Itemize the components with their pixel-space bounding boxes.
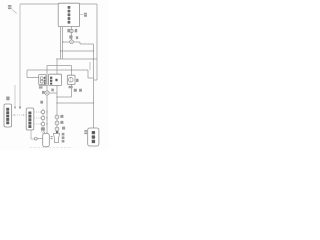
wire long line y70 (27, 69, 88, 71)
wire pipe pair left (60, 27, 62, 59)
nozzle circle 2 (55, 121, 59, 125)
text valve block (50, 77, 58, 85)
wire pump2 outlet x71.5 (71, 84, 73, 97)
label funnel right column (62, 133, 65, 143)
wire y42 branch (63, 41, 81, 43)
junction dot y51 left (60, 50, 61, 51)
wire y51 (61, 50, 94, 52)
arrowhead left link b (13, 114, 15, 116)
text controller box (68, 6, 71, 24)
label nozzle 2 (60, 121, 63, 124)
wire left signal line (14, 85, 16, 108)
junction dot y109 (56, 102, 57, 103)
wire left supply line 20 (19, 4, 21, 108)
wire drain to tank (37, 138, 43, 140)
dashed link left boxes (12, 114, 25, 116)
label nozzle 1 (60, 115, 63, 118)
text tank box (92, 131, 95, 143)
label nozzle 3 (62, 127, 65, 130)
wire bus x47 (46, 66, 48, 134)
valve circle a x43 (41, 110, 44, 113)
wire pipe pair right (62, 27, 64, 59)
nozzle circle 3 (55, 127, 59, 131)
pump2 vane (70, 77, 72, 82)
junction dot pump outlet (46, 85, 47, 86)
label sensor left (67, 29, 70, 33)
dashed control link b (34, 117, 40, 119)
funnel collector (53, 134, 59, 143)
flow sensor circle (70, 29, 73, 32)
dashed control link c (34, 123, 40, 125)
valve circle b x43 (41, 116, 44, 119)
junction dot x71 y70 (71, 69, 72, 70)
junction dot riser y51 (93, 50, 94, 51)
sensor mark (71, 30, 72, 31)
wire y97 link (57, 96, 72, 98)
junction dot riser y59 (93, 58, 94, 59)
pump2 circle (69, 77, 74, 82)
label 40 (84, 13, 87, 17)
nozzle circle 1 (55, 115, 59, 119)
wire top pipe left (20, 3, 58, 5)
text tall box (28, 112, 31, 129)
wire valve outlet y93 (49, 92, 57, 94)
wire bus x57 lower (56, 85, 58, 134)
junction dot y97 (56, 96, 57, 97)
drain pump circle (34, 137, 37, 140)
label 10 (8, 5, 12, 9)
pump box P2 (67, 75, 75, 84)
wire pump1 outlet y85.5 (39, 85, 47, 87)
wire y47 jog (80, 43, 94, 45)
pump1 circle b (40, 80, 43, 83)
wire sensor drop x71.5 (71, 27, 73, 40)
label valve v1 right (76, 36, 78, 39)
label x43 top (40, 101, 43, 104)
label pump1 below (39, 86, 43, 88)
controller box U1 (58, 3, 79, 26)
bottom faint rule (30, 147, 72, 149)
wire y109 link (57, 102, 94, 104)
label funnel left (51, 136, 53, 139)
arrowhead left link (23, 114, 25, 116)
nozzle tick 2 (56, 122, 58, 124)
label pair b (79, 89, 82, 92)
leader label 10 (12, 9, 17, 13)
wire bus y59 (57, 58, 97, 60)
control unit box left (4, 104, 12, 127)
junction dot y42 (62, 41, 63, 42)
valve V1 (70, 40, 74, 44)
nozzle tick 3 (56, 128, 58, 130)
junction dot x47 c (46, 123, 47, 124)
wire y65 link (47, 65, 72, 67)
label tank left (84, 130, 87, 134)
label 13 (41, 127, 45, 130)
wire pump inlet y78 (27, 77, 39, 79)
pump1 circle a (40, 77, 43, 80)
wire riser x93.5 (93, 44, 95, 128)
pump unit box P1 (39, 75, 46, 85)
wire ladder rung x90 (89, 62, 91, 70)
label pair a (74, 89, 77, 92)
junction dot x47 a (46, 111, 47, 112)
small tank capsule (43, 133, 50, 147)
arrowhead link c (40, 123, 41, 125)
valve circle c x43 (41, 122, 44, 125)
label sensor right (75, 29, 78, 33)
wire pump2 inlet stub (71, 66, 73, 76)
text pump1 marks (44, 77, 45, 84)
wire right edge riser (96, 4, 98, 80)
valve block box A (49, 74, 62, 85)
arrowhead link b (40, 117, 41, 119)
arrowhead link a (40, 111, 41, 113)
label valve v1 (69, 35, 72, 38)
label valve v2 right (51, 89, 54, 92)
arrowhead left line 20 (19, 107, 21, 110)
dashed control link a (34, 111, 40, 113)
junction dot riser y109 (93, 102, 94, 103)
label valve v2 left (42, 91, 45, 94)
wire valve column x43 (43, 109, 45, 134)
valve V1 cross (70, 41, 72, 43)
label pump2 right (76, 79, 79, 82)
label pump2 below (69, 86, 73, 88)
wire bus x57 upper (56, 59, 58, 74)
wire right edge foot (94, 79, 98, 81)
label above left box (6, 97, 9, 101)
valve V2 cross (46, 92, 48, 94)
funnel inlet fitting (56, 131, 58, 133)
wire suction drop x27 (26, 70, 28, 78)
nozzle tick 1 (56, 116, 58, 118)
wire top pipe right (80, 3, 97, 5)
wire x80 drop (79, 42, 81, 44)
arrowhead left signal (14, 107, 16, 110)
wire staircase right (88, 70, 94, 78)
valve V2 (45, 91, 49, 95)
oil tank box bottom right (88, 128, 99, 146)
leader label 40 (80, 14, 84, 16)
tick 13 (41, 131, 43, 134)
text left box (6, 108, 9, 125)
wire tallbox drain (31, 130, 35, 139)
drive unit tall box (26, 108, 34, 130)
junction dot y59 left (56, 58, 57, 59)
junction dot x47 b (46, 117, 47, 118)
